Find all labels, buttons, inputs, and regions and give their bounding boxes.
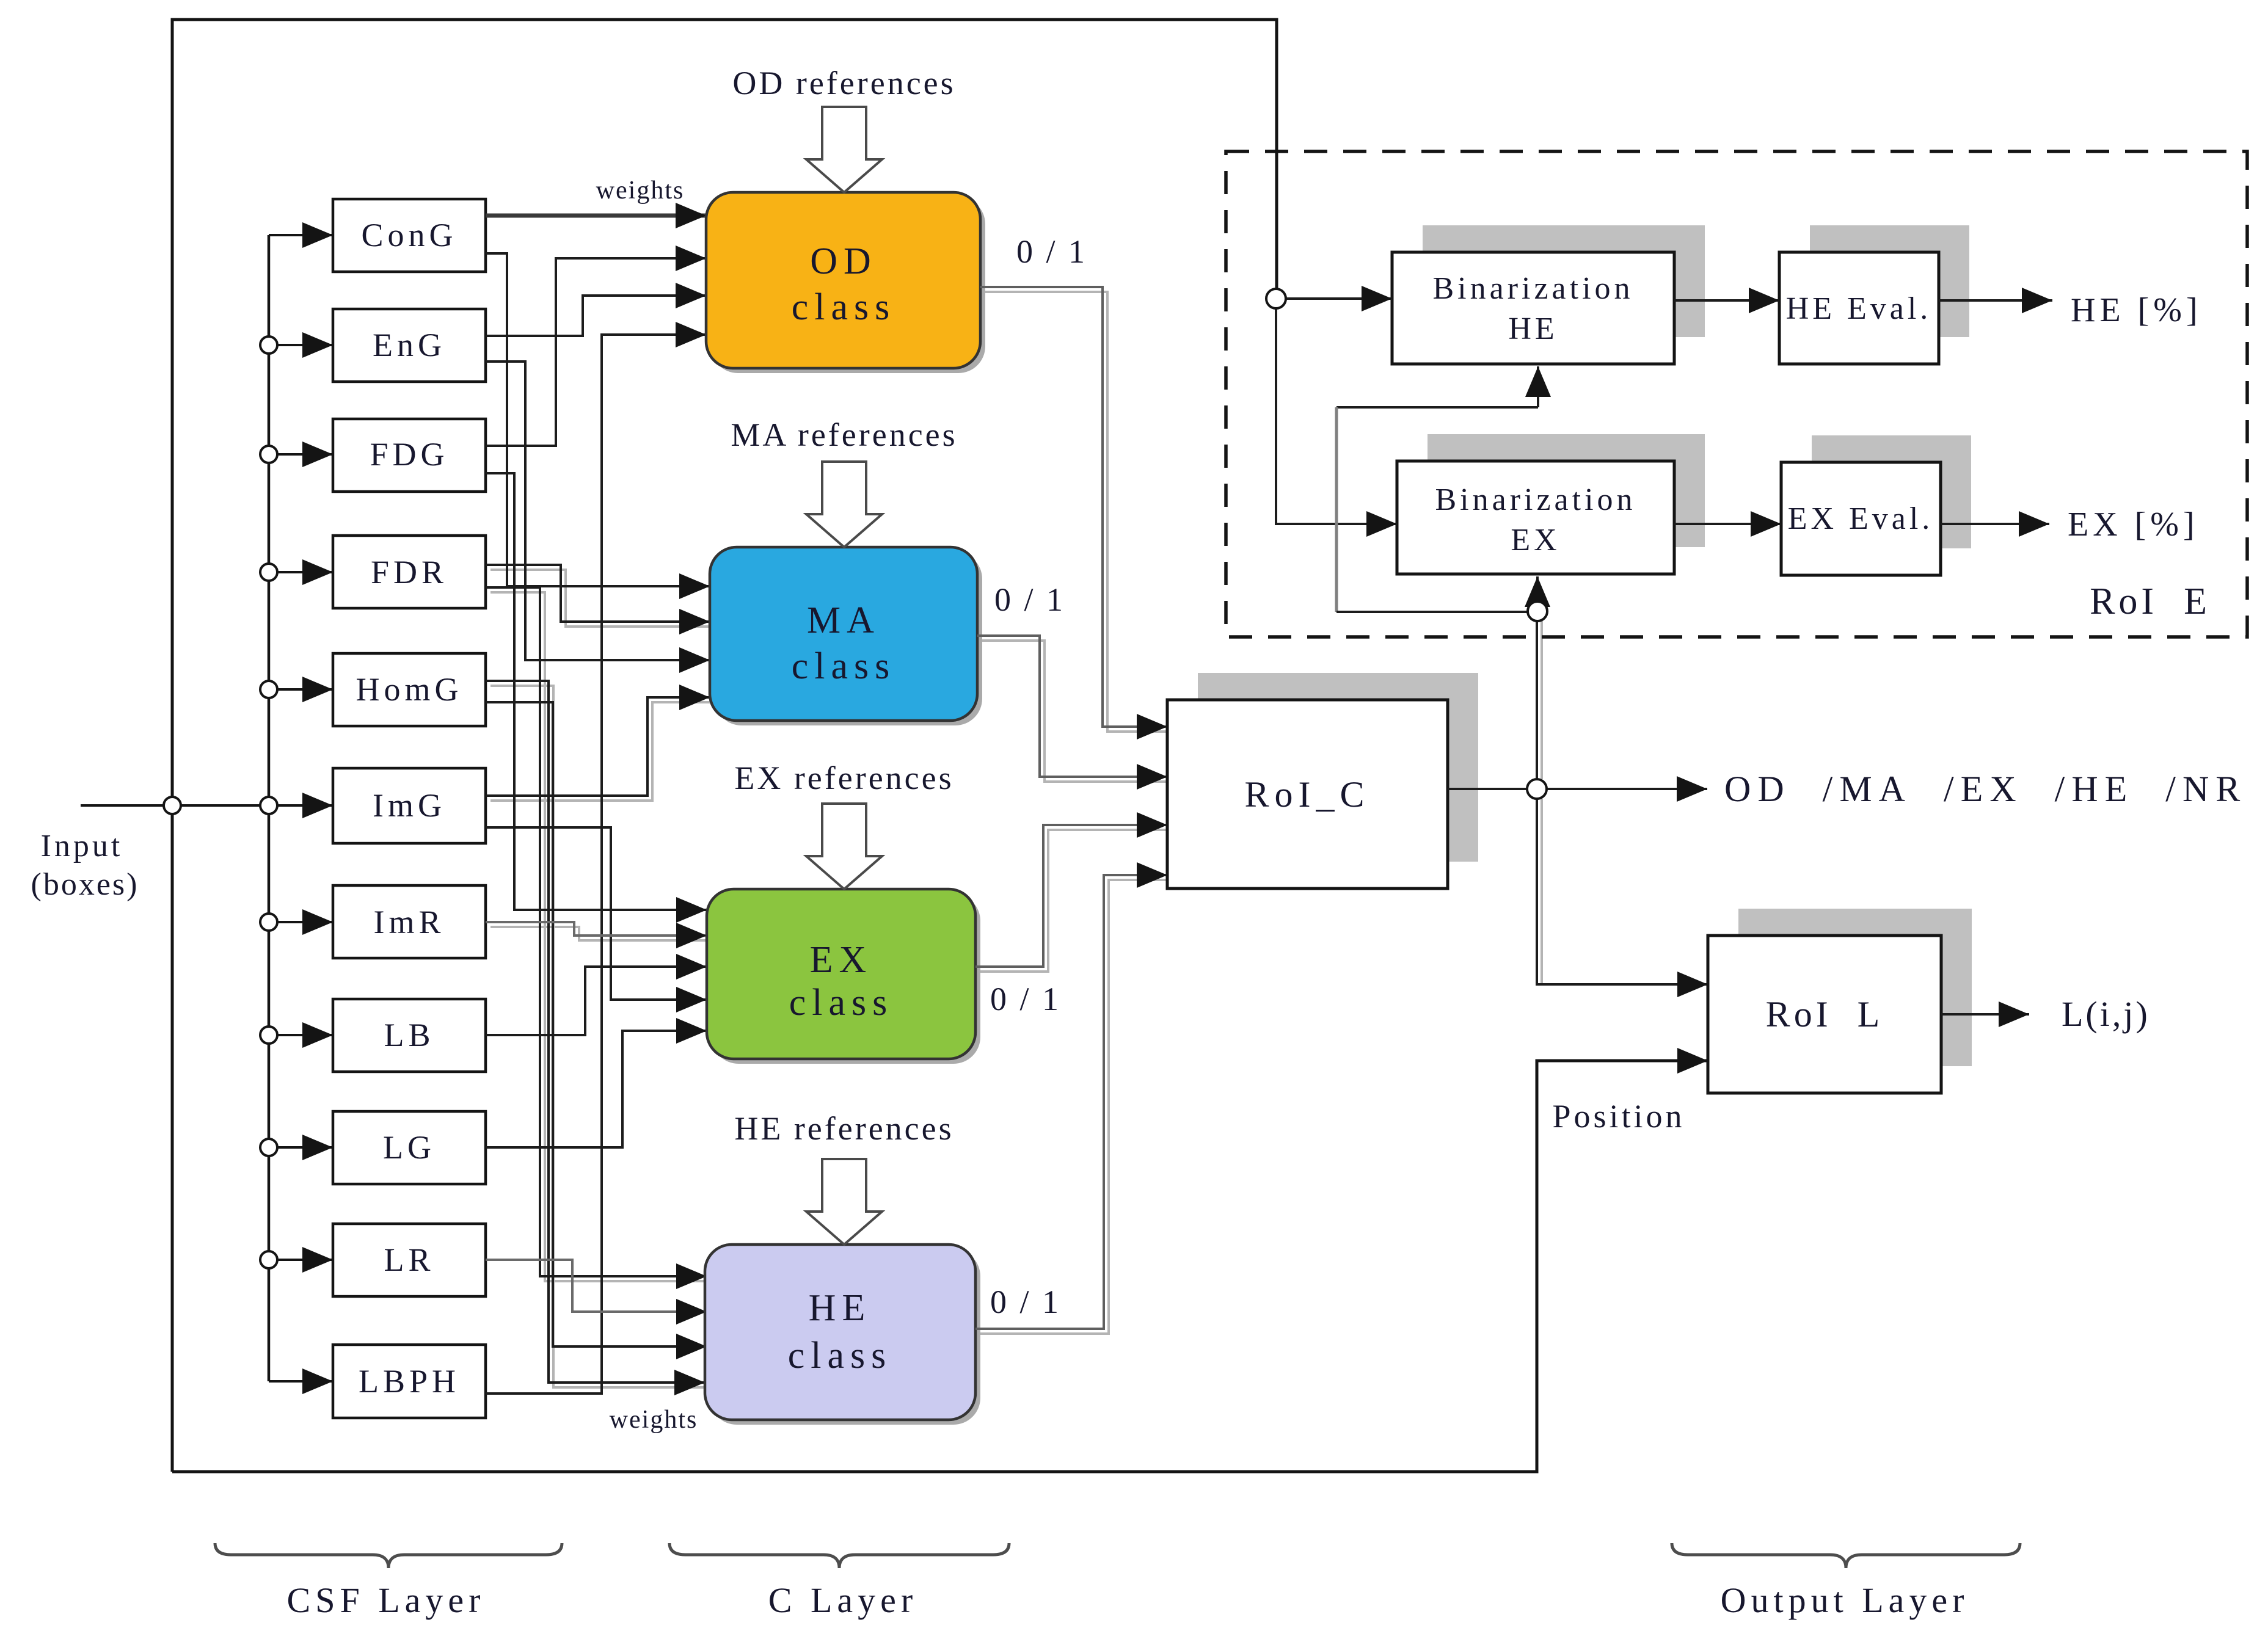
svg-text:Binarization: Binarization	[1432, 271, 1633, 306]
svg-text:0 / 1: 0 / 1	[990, 1284, 1061, 1320]
svg-text:class: class	[792, 645, 896, 687]
svg-text:LG: LG	[383, 1129, 436, 1166]
svg-text:class: class	[789, 982, 894, 1023]
svg-text:EX: EX	[1511, 523, 1560, 558]
svg-text:OD /MA /EX /HE /NR: OD /MA /EX /HE /NR	[1724, 769, 2247, 809]
svg-text:HE references: HE references	[734, 1110, 954, 1147]
svg-text:HE Eval.: HE Eval.	[1786, 291, 1932, 326]
svg-text:ImR: ImR	[373, 904, 445, 940]
svg-text:HE: HE	[1508, 311, 1558, 346]
svg-text:RoI_C: RoI_C	[1244, 774, 1369, 815]
svg-text:OD references: OD references	[732, 65, 955, 101]
svg-text:weights: weights	[596, 176, 685, 205]
svg-text:ImG: ImG	[373, 787, 446, 824]
svg-text:CSF Layer: CSF Layer	[287, 1580, 486, 1620]
svg-text:EX references: EX references	[734, 760, 954, 796]
svg-text:HE: HE	[809, 1287, 872, 1329]
svg-text:FDG: FDG	[370, 436, 448, 473]
svg-text:Output Layer: Output Layer	[1721, 1580, 1969, 1620]
svg-text:EX: EX	[810, 939, 873, 981]
svg-text:Input: Input	[41, 829, 123, 863]
svg-text:class: class	[792, 286, 896, 328]
svg-text:Binarization: Binarization	[1435, 482, 1636, 517]
svg-text:RoI E: RoI E	[2090, 581, 2211, 622]
svg-text:RoI L: RoI L	[1766, 994, 1884, 1034]
svg-text:C Layer: C Layer	[768, 1580, 917, 1620]
svg-text:L(i,j): L(i,j)	[2062, 994, 2150, 1034]
svg-text:EX Eval.: EX Eval.	[1788, 501, 1934, 536]
svg-text:class: class	[788, 1335, 892, 1376]
svg-text:EnG: EnG	[373, 327, 446, 363]
svg-text:MA references: MA references	[731, 416, 957, 453]
svg-text:weights: weights	[610, 1406, 698, 1434]
svg-text:LR: LR	[384, 1241, 434, 1278]
svg-text:MA: MA	[807, 600, 880, 641]
svg-text:LB: LB	[384, 1017, 434, 1053]
svg-text:0 / 1: 0 / 1	[1016, 233, 1087, 270]
svg-text:0 / 1: 0 / 1	[994, 581, 1065, 618]
svg-text:HomG: HomG	[356, 671, 463, 708]
svg-text:HE [%]: HE [%]	[2071, 291, 2202, 329]
svg-text:(boxes): (boxes)	[31, 867, 139, 902]
svg-text:EX [%]: EX [%]	[2068, 506, 2199, 543]
svg-text:Position: Position	[1552, 1098, 1685, 1135]
svg-text:LBPH: LBPH	[359, 1363, 460, 1400]
svg-text:ConG: ConG	[361, 217, 457, 253]
svg-text:0 / 1: 0 / 1	[990, 981, 1061, 1017]
svg-text:OD: OD	[810, 241, 877, 282]
svg-text:FDR: FDR	[371, 554, 448, 591]
